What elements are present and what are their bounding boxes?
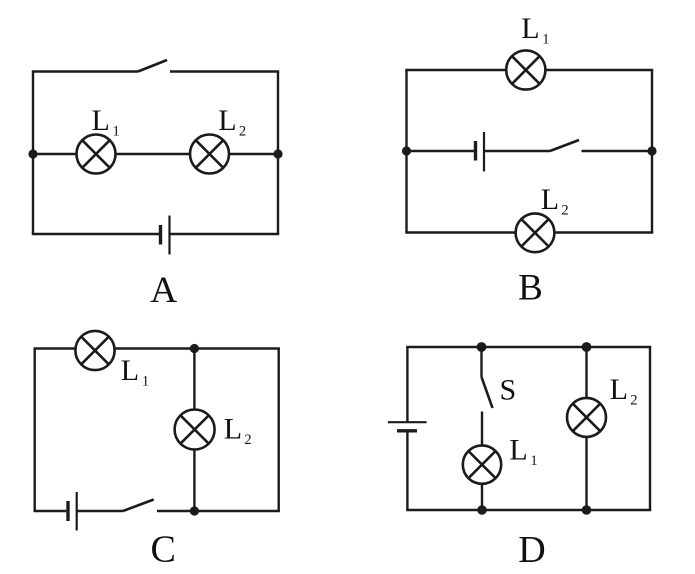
battery (D) negative short plate (397, 429, 417, 432)
wire C right side (278, 349, 280, 512)
label S (D) (500, 374, 517, 407)
label L1 (B) (521, 12, 549, 48)
wire B bottom-left segment (405, 231, 515, 233)
battery (C) positive long plate (76, 492, 78, 531)
switch A (open, on top wire) (138, 60, 167, 72)
wire B middle-right segment (582, 150, 653, 152)
wire D right side (649, 347, 651, 510)
svg-text:C: C (151, 529, 176, 571)
node B right junction (647, 146, 656, 155)
wire D branch1 middle stub (481, 412, 483, 446)
label L2 (B) (541, 183, 569, 219)
wire A bottom-left segment (32, 233, 159, 235)
node A left junction (28, 149, 37, 158)
wire C top-right segment (115, 347, 280, 349)
label C (151, 529, 176, 571)
battery (D) positive long plate (388, 421, 427, 423)
node C bottom junction (190, 506, 199, 515)
wire B left side (405, 70, 407, 233)
label L1 (D) (509, 434, 537, 470)
wire B right side (651, 70, 653, 233)
label L2 (D) (610, 373, 638, 409)
wire B top-right segment (545, 69, 653, 71)
wire B middle-left segment (407, 150, 475, 152)
battery (C) negative short plate (66, 501, 69, 521)
wire D branch2 lower stub (585, 437, 587, 510)
wire A left side (32, 72, 34, 235)
wire C top-left segment (34, 347, 76, 349)
switch B (open, on middle wire) (550, 140, 579, 151)
wire D branch1 upper stub (480, 347, 482, 377)
svg-text:S: S (500, 374, 517, 407)
node D branch1 top junction (477, 342, 487, 352)
wire A top-left segment (32, 70, 138, 72)
node B left junction (402, 146, 411, 155)
svg-text:B: B (518, 268, 543, 309)
lamp L2 (B) (516, 213, 555, 252)
label L2 (C) (224, 413, 252, 449)
svg-text:A: A (150, 270, 177, 311)
wire A middle-center segment (116, 153, 191, 155)
lamp L1 (B) (506, 50, 545, 89)
wire C left side (34, 349, 36, 512)
switch C (open, on bottom wire) (123, 500, 154, 512)
wire B middle-center segment (484, 150, 550, 152)
wire A bottom-right segment (170, 233, 280, 235)
label D (518, 529, 545, 571)
wire C branch lower segment (193, 450, 195, 512)
lamp L1 (A) (77, 135, 116, 174)
node D branch2 top junction (582, 342, 592, 352)
lamp L2 (D) (567, 398, 606, 437)
wire A middle-right segment (229, 153, 278, 155)
wire C bottom-left segment (34, 510, 67, 512)
node C top junction (190, 344, 199, 353)
battery (A) positive long plate (168, 216, 170, 255)
label L1 (C) (121, 354, 149, 390)
wire C bottom segment battery-to-switch (77, 510, 123, 512)
svg-text:D: D (518, 529, 545, 571)
label B (518, 268, 543, 309)
node D branch1 bottom junction (477, 505, 487, 515)
wire D left lower segment (406, 431, 408, 510)
wire D branch1 lower stub (481, 484, 483, 510)
lamp L2 (A) (190, 135, 229, 174)
node D branch2 bottom junction (582, 505, 592, 515)
wire B bottom-right segment (554, 231, 653, 233)
wire A top-right segment (170, 70, 279, 72)
switch S (D, open) (482, 377, 493, 408)
wire C bottom-right segment (157, 510, 280, 512)
wire B top-left segment (405, 69, 506, 71)
wire C branch upper segment (193, 349, 195, 411)
wire D top side (406, 346, 651, 348)
wire D left upper segment (406, 347, 408, 421)
lamp L1 (D) (463, 445, 501, 483)
wire D branch2 upper stub (585, 347, 587, 399)
label A (150, 270, 177, 311)
wire D bottom side (406, 509, 651, 511)
battery (B) negative short plate (474, 141, 477, 161)
wire A right side (277, 72, 279, 235)
node A right junction (273, 149, 282, 158)
label L2 (A) (218, 104, 246, 140)
lamp L1 (C) (75, 331, 114, 370)
label L1 (A) (92, 104, 120, 140)
battery (B) positive long plate (483, 132, 485, 171)
battery (A) negative short plate (159, 225, 162, 245)
lamp L2 (C) (175, 410, 215, 450)
wire A middle-left segment (33, 153, 77, 155)
